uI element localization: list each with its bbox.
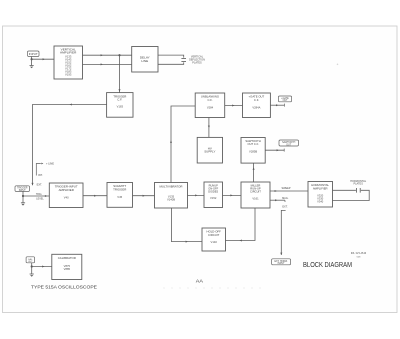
svg-text:INPUT: INPUT: [19, 190, 26, 192]
svg-text:V284A: V284A: [252, 106, 260, 110]
wire horiz plates return loop: [333, 190, 370, 200]
wire trigger input to amplifier: [23, 195, 49, 197]
wire unblanking down to HV supply: [208, 118, 210, 138]
svg-text:LINE: LINE: [141, 59, 148, 63]
hold-off circuit block: [202, 228, 226, 251]
wire delay line to vertical plates upper: [158, 55, 184, 58]
delay line block: [132, 47, 158, 73]
svg-text:SWEEP: SWEEP: [281, 187, 290, 190]
svg-text:CALIBRATOR: CALIBRATOR: [58, 256, 76, 260]
schmitt trigger block: [107, 183, 133, 208]
svg-text:V152: V152: [210, 196, 217, 200]
svg-text:DIODES: DIODES: [208, 189, 218, 193]
horizontal amplifier block: [308, 182, 333, 208]
horizontal deflection plates: [356, 188, 358, 193]
svg-text:TRIGGER: TRIGGER: [113, 187, 126, 191]
wire line-trigger stub: [36, 164, 41, 176]
ground: [30, 274, 34, 277]
unblanking CF block: [195, 93, 225, 118]
svg-text:AMPLIFIER: AMPLIFIER: [313, 186, 328, 190]
svg-text:V340: V340: [317, 199, 324, 203]
svg-text:AMPLIFIER: AMPLIFIER: [59, 188, 74, 192]
svg-text:C.F.: C.F.: [208, 98, 213, 102]
wire delay line to vertical plates lower: [158, 62, 184, 64]
svg-text:EXT.: EXT.: [282, 205, 288, 208]
wire schmitt to multivibrator: [133, 195, 155, 197]
wire runup diodes to miller: [223, 194, 242, 196]
svg-text:INPUT: INPUT: [278, 263, 285, 265]
svg-text:AA: AA: [196, 278, 203, 283]
svg-text:V140B: V140B: [167, 198, 175, 202]
svg-text:OUT C.F.: OUT C.F.: [248, 142, 259, 146]
miller runup circuit block: [241, 182, 270, 208]
wire miller mag output stub: [270, 199, 285, 201]
svg-text:CIRCUIT: CIRCUIT: [250, 189, 261, 193]
multivibrator block: [155, 183, 188, 209]
svg-text:TRIG.: TRIG.: [36, 193, 43, 196]
wire sawtooth out to connector: [265, 149, 284, 151]
ground: [21, 203, 25, 206]
wire vert amp upper output to delay line: [83, 54, 132, 56]
wire input to vertical amplifier: [32, 58, 54, 60]
vertical deflection plates: [181, 58, 186, 60]
svg-text:OUT: OUT: [28, 261, 33, 263]
svg-text:TYPE 515A OSCILLOSCOPE: TYPE 515A OSCILLOSCOPE: [31, 285, 97, 290]
svg-text:EXT.: EXT.: [37, 183, 43, 187]
wire trigger junction to ground: [22, 196, 24, 203]
gate out connector: [278, 96, 291, 102]
svg-text:SUPPLY: SUPPLY: [204, 150, 215, 154]
gate out CF block: [243, 93, 271, 118]
wire trig amp to schmitt: [83, 195, 107, 197]
svg-text:MULTIVIBRATOR: MULTIVIBRATOR: [160, 184, 183, 188]
wire multivibrator down to hold-off: [172, 208, 203, 242]
svg-text:V284: V284: [207, 106, 214, 110]
wire cal junction to calibrator: [32, 266, 52, 268]
svg-text:V285B: V285B: [249, 150, 257, 154]
wire ext horiz input line: [281, 210, 285, 255]
svg-text:V40: V40: [64, 196, 69, 200]
svg-text:C.F.: C.F.: [254, 98, 259, 102]
input connector: [28, 51, 40, 57]
runup on-off diodes block: [204, 182, 223, 208]
wire cal connector lead: [31, 263, 33, 267]
svg-text:+ LINE: + LINE: [46, 162, 54, 166]
wire miller sweep output to horizontal amplifier: [270, 190, 308, 192]
svg-text:V140: V140: [211, 240, 218, 244]
vertical amplifier block: [54, 46, 83, 79]
svg-text:CIRCUIT: CIRCUIT: [208, 233, 220, 237]
svg-text:INPUT: INPUT: [29, 52, 38, 56]
svg-text:V183: V183: [117, 105, 124, 109]
wire multivibrator up to unblanking CF: [171, 106, 195, 183]
svg-text:V45: V45: [117, 195, 122, 199]
cal out connector: [26, 257, 34, 263]
svg-text:AMPLIFIER: AMPLIFIER: [60, 51, 77, 55]
svg-text:OUT: OUT: [286, 144, 291, 146]
trigger input amplifier block: [49, 183, 83, 208]
wire vert amp lower output to delay line: [83, 63, 132, 65]
wire trigger connector lead: [22, 191, 24, 196]
wire input lead: [31, 57, 33, 60]
wire sawtooth CF down to miller: [253, 163, 255, 182]
wire gate out to connector: [270, 104, 284, 106]
node cal junction: [31, 265, 33, 267]
node input junction: [31, 58, 33, 60]
svg-text:V193: V193: [65, 72, 72, 76]
wire trigger CF left then down to trigger switch: [33, 105, 107, 186]
wire multivibrator to runup diodes: [188, 194, 205, 196]
wire miller down to hold-off: [226, 208, 256, 241]
wire unblanking to gate out CF: [225, 105, 243, 107]
svg-text:C.F.: C.F.: [117, 98, 122, 102]
node trigger junction: [22, 195, 24, 197]
svg-text:MAG.: MAG.: [282, 197, 289, 200]
svg-text:PLATES: PLATES: [192, 61, 202, 64]
svg-text:V885: V885: [64, 267, 71, 271]
ext horiz input connector: [272, 259, 291, 265]
svg-text:BLOCK DIAGRAM: BLOCK DIAGRAM: [303, 261, 352, 269]
node trigger pickoff: [118, 54, 120, 56]
trigger CF block: [107, 93, 133, 118]
svg-text:V161: V161: [252, 197, 259, 201]
sawtooth out connector: [279, 140, 299, 146]
calibrator block: [52, 254, 82, 279]
wire to ground: [31, 59, 33, 65]
svg-text:PLATES: PLATES: [353, 183, 363, 186]
wire horiz amp to horizontal plates: [333, 189, 356, 191]
trigger input connector: [15, 186, 30, 192]
HV supply block: [197, 137, 222, 163]
svg-text:R-VI-63: R-VI-63: [351, 251, 367, 255]
ground: [30, 66, 34, 69]
svg-text:LEVEL: LEVEL: [36, 198, 44, 201]
wire pickoff down to trigger CF: [119, 55, 121, 92]
faint bleed-through: [163, 286, 261, 290]
wire cal junction to ground: [31, 267, 33, 275]
sawtooth out CF block: [241, 138, 265, 164]
svg-text:OUT: OUT: [283, 100, 288, 102]
svg-text:INT.: INT.: [38, 173, 43, 177]
